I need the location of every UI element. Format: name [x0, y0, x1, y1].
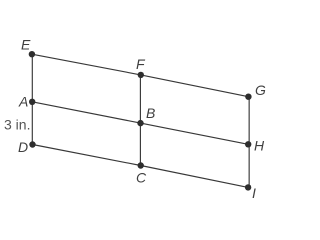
node I: [245, 184, 251, 190]
svg-text:E: E: [21, 37, 31, 53]
node D: [29, 141, 35, 147]
node E: [29, 51, 35, 57]
svg-text:B: B: [146, 105, 155, 121]
node A: [29, 99, 35, 105]
node G: [245, 94, 251, 100]
svg-text:C: C: [136, 170, 147, 186]
svg-text:H: H: [254, 138, 265, 154]
svg-text:D: D: [18, 139, 28, 155]
svg-text:G: G: [255, 82, 266, 98]
svg-text:F: F: [136, 56, 146, 72]
wire: transversal E-F-G: [32, 54, 249, 96]
wire: left vertical E-A-D: [31, 54, 33, 144]
node F: [138, 72, 144, 78]
wire: middle vertical F-B-C: [139, 75, 141, 166]
node C: [138, 162, 144, 168]
wire: transversal D-C-I: [33, 145, 249, 188]
node H: [245, 141, 251, 147]
svg-text:3 in.: 3 in.: [4, 117, 30, 133]
wire: right vertical G-H-I: [248, 97, 250, 188]
svg-text:A: A: [18, 94, 28, 110]
svg-text:I: I: [252, 185, 256, 201]
node B: [137, 120, 143, 126]
wire: transversal A-B-H: [32, 102, 248, 145]
